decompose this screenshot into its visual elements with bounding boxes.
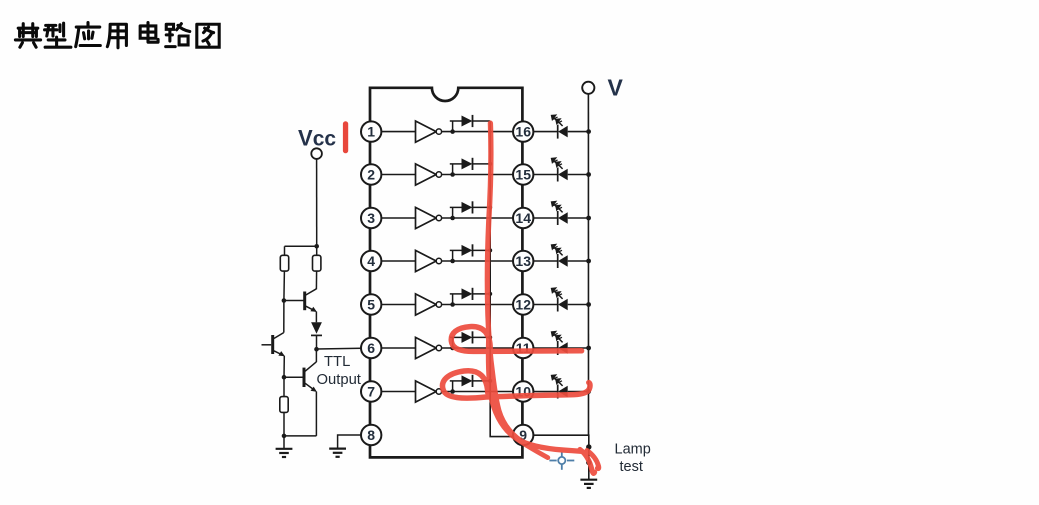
ground pin 8 bbox=[329, 449, 346, 457]
inverter row pin4 bbox=[381, 244, 514, 271]
supply line bbox=[587, 94, 589, 436]
svg-text:7: 7 bbox=[367, 384, 375, 400]
svg-text:3: 3 bbox=[367, 210, 375, 226]
char 用 bbox=[107, 24, 126, 48]
pin 7 bbox=[361, 381, 381, 401]
pin 9 external wire to lamp test bbox=[533, 435, 589, 462]
svg-text:V: V bbox=[608, 75, 624, 101]
red second strand bbox=[488, 334, 548, 458]
svg-text:4: 4 bbox=[367, 253, 375, 269]
svg-text:14: 14 bbox=[515, 210, 531, 226]
pin 11 bbox=[513, 338, 533, 358]
wire to pin 6 bbox=[317, 347, 362, 350]
lamp test ground bbox=[588, 463, 590, 480]
LED row pin12 bbox=[533, 288, 591, 311]
pin 14 bbox=[513, 208, 533, 228]
svg-text:Lamp: Lamp bbox=[615, 442, 651, 458]
inverter row pin6 bbox=[381, 331, 514, 358]
red vertical scribble bbox=[487, 123, 582, 451]
red loop row 11 bbox=[451, 327, 581, 352]
red hook finger 2 bbox=[587, 451, 599, 469]
svg-text:15: 15 bbox=[515, 167, 531, 183]
pin 10 bbox=[513, 381, 533, 401]
common cathode line to pin 9 bbox=[490, 121, 513, 437]
char 典 bbox=[15, 24, 40, 48]
lamp test switch contacts bbox=[586, 444, 591, 449]
resistor R1 bbox=[284, 246, 286, 255]
svg-text:Vcc: Vcc bbox=[298, 126, 336, 151]
red hook finger 1 bbox=[580, 450, 595, 474]
lamp test pushbutton symbol bbox=[549, 452, 574, 470]
red loop row 10 bbox=[442, 371, 590, 398]
svg-text:1: 1 bbox=[367, 123, 375, 139]
char 应 bbox=[76, 23, 101, 47]
pin 5 bbox=[361, 294, 381, 314]
pin 6 bbox=[361, 338, 381, 358]
pin 8 ground wire bbox=[338, 435, 362, 448]
svg-text:13: 13 bbox=[515, 253, 531, 269]
svg-text:5: 5 bbox=[367, 297, 375, 313]
LED row pin16 bbox=[533, 115, 591, 138]
node Q1 emitter bbox=[282, 375, 287, 380]
inverter row pin2 bbox=[381, 158, 514, 185]
wire rail bbox=[285, 245, 317, 247]
inverter row pin5 bbox=[381, 288, 514, 315]
svg-text:6: 6 bbox=[367, 340, 375, 356]
pin 3 bbox=[361, 208, 381, 228]
ground TTL bbox=[283, 436, 285, 449]
LED row pin15 bbox=[533, 158, 591, 181]
V supply terminal bbox=[582, 82, 594, 94]
svg-text:test: test bbox=[620, 459, 643, 475]
transistor Q2 bbox=[284, 289, 317, 323]
inverter row pin1 bbox=[381, 115, 514, 142]
char 电 bbox=[140, 23, 158, 43]
pin 16 bbox=[513, 121, 533, 141]
LED row pin14 bbox=[533, 202, 591, 225]
LED row pin11 bbox=[533, 332, 591, 355]
svg-text:2: 2 bbox=[367, 167, 375, 183]
pin 12 bbox=[513, 294, 533, 314]
inverter row pin7 bbox=[381, 375, 514, 402]
LED row pin13 bbox=[533, 245, 591, 268]
node base Q2 bbox=[282, 298, 287, 303]
IC body outline with notch bbox=[370, 88, 522, 458]
pin 15 bbox=[513, 164, 533, 184]
red tick annotation bbox=[343, 121, 348, 153]
svg-text:16: 16 bbox=[515, 123, 531, 139]
char 图 bbox=[197, 24, 219, 47]
char 型 bbox=[45, 23, 71, 47]
inverter row pin3 bbox=[381, 201, 514, 228]
pin 13 bbox=[513, 251, 533, 271]
pin 1 bbox=[361, 121, 381, 141]
node emitter ground bbox=[282, 434, 287, 439]
transistor Q3 bbox=[284, 349, 317, 436]
junction dots on common line bbox=[488, 162, 492, 383]
transistor Q1 bbox=[262, 301, 285, 378]
diode D1 bbox=[311, 322, 322, 334]
pin 8 bbox=[361, 425, 381, 445]
pin 2 bbox=[361, 164, 381, 184]
node TTL output bbox=[314, 347, 319, 352]
wire Vcc down bbox=[316, 159, 318, 246]
svg-text:8: 8 bbox=[367, 427, 375, 443]
pin 4 bbox=[361, 251, 381, 271]
node Vcc rail bbox=[314, 244, 319, 249]
svg-text:12: 12 bbox=[515, 297, 531, 313]
resistor R2 bbox=[316, 246, 318, 255]
LED row pin10 bbox=[533, 375, 591, 398]
Vcc terminal bbox=[311, 148, 322, 159]
char 路 bbox=[166, 24, 190, 47]
pin 9 bbox=[513, 425, 533, 445]
svg-text:Output: Output bbox=[317, 372, 361, 388]
resistor R3 bbox=[283, 377, 285, 396]
svg-text:TTL: TTL bbox=[324, 354, 350, 370]
